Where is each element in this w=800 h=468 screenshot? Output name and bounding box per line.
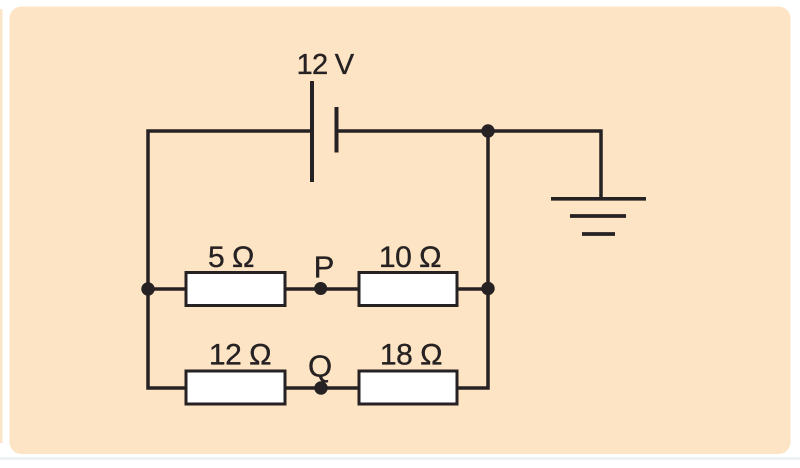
junction node row1 right [481, 282, 494, 295]
node Q junction [314, 381, 327, 394]
resistor R3 body [186, 371, 285, 404]
svg-text:10 Ω: 10 Ω [379, 241, 441, 274]
wire outer loop: top-left wire, left vertical, bottom row, right vertical [148, 130, 488, 389]
wire top-right: battery short plate to ground corner and ground stem [338, 131, 601, 197]
svg-text:18 Ω: 18 Ω [380, 339, 442, 372]
resistor R4 body [359, 371, 457, 404]
junction node row1 left [141, 282, 154, 295]
svg-text:5 Ω: 5 Ω [208, 241, 254, 274]
ground symbol [551, 199, 646, 234]
left edge sliver [0, 9, 3, 443]
battery V1 short plate (-) [335, 107, 339, 153]
node P junction [314, 282, 327, 295]
resistor R1 body [186, 273, 285, 306]
svg-text:12 V: 12 V [297, 49, 355, 81]
junction node top-right [481, 124, 494, 137]
battery V1 long plate (+) [310, 81, 314, 182]
svg-text:Q: Q [308, 349, 332, 384]
resistor R2 body [359, 273, 457, 306]
svg-text:P: P [314, 250, 335, 285]
bottom page shadow line [0, 458, 800, 460]
wire row1: left node through P to right node [147, 287, 489, 291]
svg-text:12 Ω: 12 Ω [209, 339, 271, 372]
